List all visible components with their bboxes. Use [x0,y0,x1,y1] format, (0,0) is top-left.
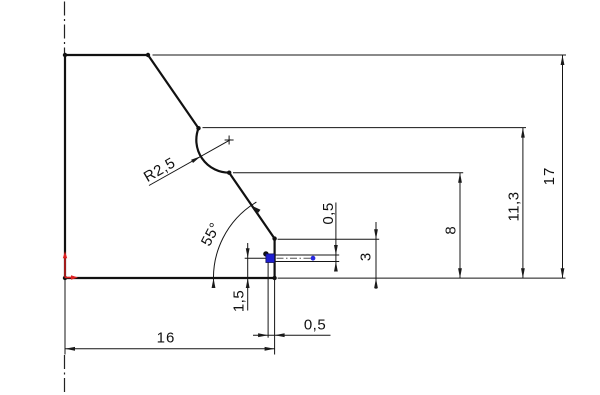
sketch point (blue dot) [311,256,316,261]
dimension 17 extension line [153,54,567,56]
dimension 17 line [562,55,564,278]
profile outline [65,55,275,278]
angular dimension 55 deg arc [213,202,256,286]
arc center marker [225,136,234,145]
svg-text:0,5: 0,5 [304,317,326,334]
radius R2,5 leader line [149,140,231,186]
dimension 3 extension line [278,238,380,240]
dimension 16 extension lines [65,278,275,355]
vertical construction centerline [64,2,66,394]
svg-text:1,5: 1,5 [231,290,248,312]
dimension 8 line [459,173,461,279]
slot corner vertex [263,251,268,256]
vertex points [63,53,67,57]
slot edge lines (0.5 wide groove) [268,255,339,262]
dimension 16 line [65,348,275,350]
dimension 11,3 line [522,128,524,279]
svg-text:16: 16 [157,330,176,347]
dimension 3 line [375,222,377,289]
svg-text:0,5: 0,5 [320,202,337,224]
slot centerline construction (dash-dot) [277,257,316,259]
svg-text:17: 17 [541,167,558,186]
selected sketch point (blue square) [266,254,275,263]
dimension 1,5 extension line [245,257,266,259]
svg-text:11,3: 11,3 [506,191,523,221]
baseline extension line [278,277,566,279]
dimension 0,5 (bottom) extension line [267,263,269,338]
dimension 11,3 extension line [203,127,527,129]
dimension 8 extension line [233,172,463,174]
dimension 1,5 line [247,243,249,311]
dimension 0,5 (bottom) line [253,334,331,336]
red sketch origin [65,255,75,278]
svg-text:8: 8 [443,226,460,234]
svg-text:3: 3 [358,253,375,261]
dimension 0,5 (slot width) line [335,203,337,271]
